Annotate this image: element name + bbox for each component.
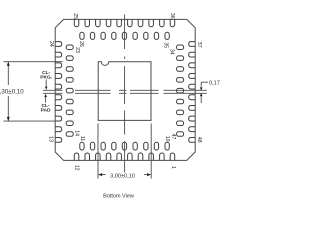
svg-text:0,17: 0,17 (209, 80, 220, 86)
svg-text:47: 47 (170, 134, 176, 140)
svg-text:35: 35 (163, 42, 169, 48)
svg-text:37: 37 (196, 42, 202, 48)
svg-text:11: 11 (79, 136, 85, 141)
svg-text:10: 10 (164, 136, 170, 142)
svg-text:34: 34 (169, 49, 175, 55)
svg-text:PKG.: PKG. (40, 74, 53, 80)
svg-text:,30±0,10: ,30±0,10 (0, 88, 24, 95)
svg-text:36: 36 (169, 13, 175, 19)
svg-text:24: 24 (48, 41, 54, 47)
svg-text:13: 13 (47, 136, 53, 142)
svg-text:48: 48 (196, 137, 202, 143)
svg-text:12: 12 (74, 165, 80, 171)
svg-text:26: 26 (78, 41, 84, 47)
svg-text:25: 25 (72, 13, 78, 19)
svg-text:23: 23 (74, 47, 80, 53)
svg-text:1: 1 (170, 166, 176, 169)
svg-text:PAD: PAD (41, 108, 51, 114)
svg-text:14: 14 (74, 130, 80, 136)
svg-text:Bottom View: Bottom View (103, 194, 134, 200)
svg-text:3,00±0,10: 3,00±0,10 (110, 174, 135, 180)
